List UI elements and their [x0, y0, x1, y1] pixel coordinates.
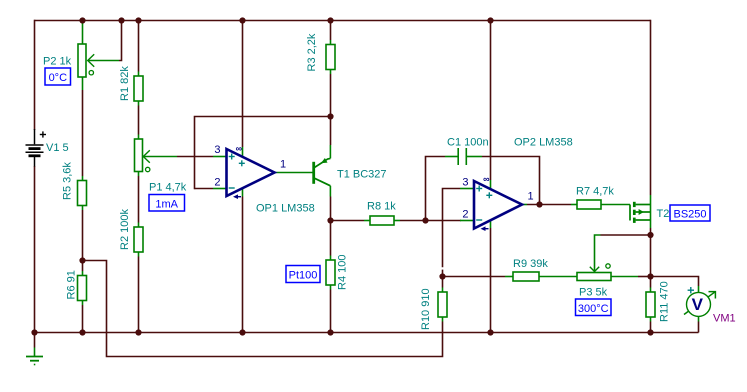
- wire OP1 V+ supply from rail: [242, 21, 244, 148]
- potentiometer P1 body: [135, 139, 143, 172]
- svg-text:2: 2: [462, 209, 468, 221]
- wire P2 wiper riser to rail: [119, 21, 122, 61]
- svg-text:Pt100: Pt100: [289, 270, 318, 282]
- resistor R3 body: [326, 45, 335, 70]
- node bus R2: [136, 330, 141, 335]
- wire node B to R8: [331, 220, 365, 222]
- wire bottom ground bus: [34, 332, 699, 334]
- wire left rail lower (V1 minus lead): [34, 166, 36, 333]
- svg-text:V: V: [692, 295, 704, 314]
- svg-text:R8 1k: R8 1k: [367, 201, 396, 213]
- node P3 right / R11 top: [648, 274, 653, 279]
- node bus OP2 V-: [488, 330, 493, 335]
- wire OP2 output to R7: [522, 204, 527, 206]
- wire right node to VM1 top: [651, 277, 699, 287]
- value box 1mA for P1: [149, 195, 185, 212]
- potentiometer P1 wiper circle: [146, 167, 150, 171]
- potentiometer P1 wiper arrowhead: [143, 150, 150, 163]
- wire drain node to P3 wiper: [601, 234, 651, 236]
- resistor R8 body: [370, 216, 394, 225]
- value box 0°C for P2: [45, 68, 71, 85]
- svg-text:1: 1: [280, 159, 286, 171]
- node dot rail R1: [136, 18, 141, 23]
- wire R3 bottom to node A: [330, 70, 332, 75]
- wire T1 collector down to node B: [329, 186, 331, 197]
- svg-text:BS250: BS250: [673, 208, 706, 220]
- wire R6 bottom to bus: [82, 301, 84, 306]
- op-amp U2 OP2 triangle: [474, 174, 522, 231]
- potentiometer P3 body: [577, 273, 611, 281]
- wire OP1 output to T1 base: [275, 172, 313, 174]
- svg-text:R6 91: R6 91: [66, 270, 78, 299]
- svg-text:R2 100k: R2 100k: [119, 209, 131, 250]
- wire C1 left branch: [426, 157, 446, 221]
- battery V1: [26, 129, 47, 167]
- wire left rail upper (V1 plus lead): [34, 20, 36, 130]
- wire P2 wiper arm green: [89, 60, 120, 62]
- svg-text:1mA: 1mA: [155, 198, 178, 210]
- wire R5 bottom to junction: [82, 206, 84, 211]
- svg-text:R4 100: R4 100: [337, 255, 349, 290]
- voltmeter VM1: [684, 287, 715, 316]
- node bus ground corner: [32, 330, 37, 335]
- resistor R1 body: [134, 76, 143, 101]
- node bus R6: [80, 330, 85, 335]
- node bus R11: [648, 330, 653, 335]
- svg-text:R1 82k: R1 82k: [119, 66, 131, 101]
- potentiometer P2 body: [78, 44, 86, 77]
- node R10 top / OP2 pin3: [440, 274, 445, 279]
- wire C1 right to output node: [467, 156, 482, 158]
- node T2 drain / P3 wiper: [648, 232, 653, 237]
- node dot rail R3: [328, 18, 333, 23]
- wire R11 bottom to bus: [650, 317, 652, 322]
- svg-text:V1 5: V1 5: [46, 142, 69, 154]
- wire P1 wiper arm to OP1 pin3: [143, 156, 177, 158]
- svg-text:R10 910: R10 910: [420, 288, 432, 330]
- wire R10 junction to R9: [443, 276, 506, 278]
- wire R7 to T2 gate: [601, 204, 630, 206]
- resistor R10 body: [438, 292, 447, 317]
- svg-text:R9 39k: R9 39k: [513, 258, 548, 270]
- svg-text:3: 3: [214, 144, 220, 156]
- wire R11 top stub: [650, 277, 652, 288]
- wire T2 source column from rail: [650, 20, 652, 195]
- node dot rail OP1 supply: [240, 18, 245, 23]
- svg-text:VM1: VM1: [713, 313, 736, 325]
- svg-text:OP2 LM358: OP2 LM358: [514, 137, 573, 149]
- node bus R4: [328, 330, 333, 335]
- wire P2 top from rail: [82, 21, 84, 45]
- potentiometer P2 wiper arrowhead: [88, 54, 95, 67]
- wire junction to R6: [82, 261, 84, 272]
- potentiometer P3 wiper circle: [606, 264, 610, 268]
- capacitor C1 plates: [458, 148, 466, 165]
- wire R1 bottom to P1: [138, 101, 140, 106]
- wire OP1 feedback: pin2 up and over to node A: [195, 117, 331, 190]
- resistor R11 body: [646, 292, 655, 317]
- wire R2 bottom to bus: [138, 252, 140, 257]
- transistor Q1 T1 BC327 (PNP): [314, 158, 331, 186]
- node dot rail P2: [80, 18, 85, 23]
- svg-text:∞: ∞: [483, 174, 490, 184]
- svg-text:R3 2,2k: R3 2,2k: [306, 33, 318, 71]
- svg-text:300°C: 300°C: [578, 303, 609, 315]
- wire P1 bottom to R2: [138, 172, 140, 177]
- wire R1 top from rail: [138, 21, 140, 72]
- svg-text:T2: T2: [657, 208, 670, 220]
- svg-text:0°C: 0°C: [49, 72, 68, 84]
- resistor R9 body: [513, 272, 539, 281]
- wire R4 bottom to bus: [330, 285, 332, 290]
- wire OP2 V+ supply from rail: [490, 21, 492, 181]
- svg-text:3: 3: [462, 177, 468, 189]
- resistor R5 body: [78, 181, 87, 206]
- svg-text:C1 100n: C1 100n: [447, 137, 489, 149]
- wire P2 bottom to R5: [82, 77, 84, 90]
- wire P3 to right node: [611, 276, 638, 278]
- wire R8 to OP2 pin2: [394, 220, 400, 222]
- wire OP1 pin2 stub: [195, 188, 214, 190]
- resistor R2 body: [134, 227, 143, 252]
- svg-text:2: 2: [214, 177, 220, 189]
- node A R3/T1/feedback: [328, 114, 333, 119]
- svg-text:T1 BC327: T1 BC327: [337, 169, 387, 181]
- wire drain node down to R9 row node: [650, 235, 652, 277]
- node dot rail OP2 supply: [488, 18, 493, 23]
- svg-text:∞: ∞: [236, 144, 243, 154]
- svg-text:P1 4,7k: P1 4,7k: [149, 182, 187, 194]
- potentiometer P2 wiper circle: [89, 71, 93, 75]
- wire T2 drain down to drain node: [650, 220, 652, 228]
- svg-text:P2 1k: P2 1k: [43, 56, 72, 68]
- wire top rail +5V from V1+ to T2 source column: [35, 20, 651, 22]
- svg-text:R11 470: R11 470: [659, 281, 671, 322]
- wire OP2 V- supply to bus: [490, 221, 492, 228]
- node bus OP1 V-: [240, 330, 245, 335]
- wire OP1 V- supply to bus: [242, 189, 244, 197]
- wire R10 top stub: [442, 277, 444, 288]
- node C1 branch on pin2 wire: [423, 218, 428, 223]
- svg-text:1: 1: [528, 191, 534, 203]
- potentiometer P3 wiper arrowhead: [590, 267, 599, 272]
- wire R3 top from rail: [330, 21, 332, 41]
- node R5/R6 junction: [80, 258, 85, 263]
- value box 300°C for P3: [576, 299, 612, 316]
- transistor Q2 T2 BS250 (PMOS): [630, 202, 651, 223]
- resistor R6 body: [78, 276, 87, 301]
- wire R10 bottom long return to R5/R6 junction: [442, 317, 444, 322]
- svg-text:R7 4,7k: R7 4,7k: [576, 186, 614, 198]
- resistor R7 body: [577, 200, 601, 209]
- svg-text:P3 5k: P3 5k: [579, 287, 608, 299]
- op-amp U1 OP1 triangle: [227, 144, 275, 200]
- wire node A down to T1 emitter: [330, 117, 332, 146]
- wire OP2 pin3 from R10 top junction: [442, 270, 444, 277]
- ground: [26, 333, 43, 365]
- resistor R4 body (Pt100): [326, 260, 335, 285]
- value box BS250 for T2: [670, 205, 710, 221]
- node dot rail P2 wiper: [119, 18, 124, 23]
- svg-text:OP1 LM358: OP1 LM358: [256, 203, 315, 215]
- svg-text:R5 3,6k: R5 3,6k: [62, 162, 74, 200]
- value box Pt100 for R4: [286, 266, 320, 283]
- wire VM1 bottom to bus: [698, 316, 700, 322]
- node OP2 output: [537, 202, 542, 207]
- wire R9 to P3: [539, 276, 577, 278]
- wire node B down to R4: [330, 221, 332, 256]
- node B T1 collector/R8/R4: [328, 218, 333, 223]
